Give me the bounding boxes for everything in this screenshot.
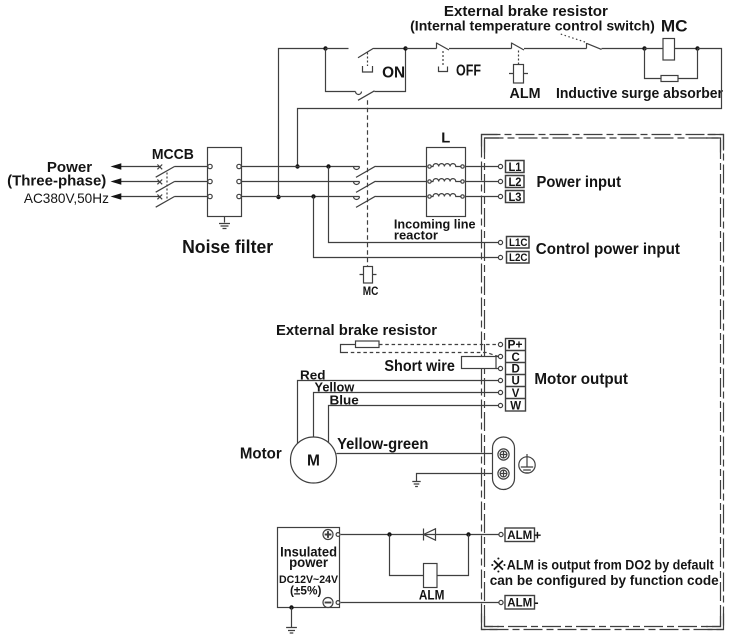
arrow T [111, 193, 122, 199]
svg-text:Short wire: Short wire [384, 358, 455, 375]
node D1a [387, 532, 391, 536]
svg-text:Control power input: Control power input [536, 241, 681, 258]
terminal circle (- out) [336, 601, 340, 605]
terminal box L2 [506, 175, 525, 189]
svg-text:Motor output: Motor output [534, 371, 628, 388]
svg-text:MC: MC [363, 284, 379, 298]
ON pushbutton (normally open) [358, 48, 406, 72]
wire U (Red) [298, 381, 499, 447]
svg-text:Yellow-green: Yellow-green [337, 436, 428, 453]
resistor: inductive surge absorber [661, 76, 678, 82]
node J1 [323, 46, 327, 50]
svg-text:(Internal temperature control: (Internal temperature control switch) [410, 18, 655, 34]
node D1b [466, 532, 470, 536]
inductor L phase 1 [428, 164, 464, 169]
wire: ON parallel branch [326, 49, 406, 92]
svg-text:ALM: ALM [510, 85, 541, 102]
terminal box L1 [506, 160, 525, 174]
phase line R [119, 166, 360, 168]
inverter drive enclosure (dashed double border) [482, 135, 724, 630]
MCCB breaker pole 3 [156, 195, 175, 208]
short wire jumper stubs [496, 357, 499, 369]
svg-text:Inductive surge absorber: Inductive surge absorber [556, 85, 723, 102]
svg-text:-: - [534, 594, 538, 609]
wire: - rail [341, 602, 499, 604]
svg-text:Blue: Blue [330, 392, 359, 407]
OFF pushbutton (normally closed) [437, 43, 512, 72]
terminal box L1C [507, 237, 530, 250]
svg-text:U: U [512, 376, 520, 388]
svg-text:ALM is output from DO2 by defa: ALM is output from DO2 by default [507, 557, 714, 573]
insulated power supply box [278, 528, 340, 608]
terminal strip P+ C D U V W [506, 339, 526, 412]
plus terminal [323, 530, 333, 540]
svg-text:L2C: L2C [509, 252, 528, 264]
MC main contact pole 2 [354, 181, 427, 192]
svg-text:MC: MC [661, 17, 688, 36]
ground (supply) [286, 608, 297, 634]
terminal circle L1 [498, 164, 502, 168]
wire W (Blue) [329, 406, 499, 444]
wire to brake resistor [345, 344, 356, 346]
terminal circle ALM+ [499, 532, 503, 536]
noise filter box [208, 148, 242, 217]
wire: relay branch [390, 535, 469, 576]
wire: yellow-green ground [337, 453, 498, 455]
arrow S [111, 178, 122, 184]
screw terminal 1 [498, 449, 509, 460]
terminal circle L1C [498, 240, 502, 244]
svg-text:Power input: Power input [537, 174, 622, 191]
svg-text:P+: P+ [508, 340, 523, 352]
wire: reactor to L2 terminal [466, 181, 499, 183]
svg-text:ON: ON [382, 64, 405, 81]
resistor: external brake resistor [356, 341, 380, 348]
node J2 [403, 46, 407, 50]
svg-text:ALM: ALM [507, 528, 532, 542]
node J3 [642, 46, 646, 50]
phase line S [119, 181, 360, 183]
MC main contact pole 1 [354, 166, 427, 177]
wire: control tap from L3 phase up to control rail [279, 49, 326, 198]
contactor coil MC [663, 39, 675, 61]
svg-text:ALM: ALM [419, 587, 445, 603]
wire V (Yellow) [314, 393, 499, 438]
svg-text:D: D [512, 364, 520, 376]
svg-text:Noise filter: Noise filter [182, 237, 273, 257]
svg-text:AC380V,50Hz: AC380V,50Hz [24, 190, 109, 206]
wire through MC coil [645, 48, 698, 50]
svg-text:reactor: reactor [394, 227, 438, 242]
wire: control return path [298, 49, 722, 167]
grounding terminal stadium [493, 437, 515, 490]
note reference mark [492, 559, 504, 572]
ALM relay coil (bottom) [424, 564, 438, 588]
terminal circle (+ out) [336, 533, 340, 537]
terminal circle L3 [498, 194, 502, 198]
svg-text:(±5%): (±5%) [290, 583, 321, 597]
MCCB mechanical link [166, 173, 168, 201]
wire: to OFF button [406, 48, 437, 50]
svg-text:can be configured by function: can be configured by function code [490, 572, 719, 588]
dashed wire to C [345, 353, 499, 357]
MC auxiliary contact (latching) [356, 91, 375, 101]
temperature control switch [559, 34, 645, 50]
terminal circle L2 [498, 179, 502, 183]
diode D1 [424, 529, 436, 541]
node: L2C tap [311, 194, 315, 198]
protective earth symbol [519, 454, 535, 473]
node J4 [695, 46, 699, 50]
arrow R [111, 163, 122, 169]
svg-text:L3: L3 [509, 190, 522, 204]
inductor L phase 3 [428, 194, 464, 199]
svg-text:MCCB: MCCB [152, 146, 194, 163]
wire: L1C [329, 167, 499, 243]
svg-text:W: W [510, 400, 521, 412]
svg-text:L: L [441, 129, 450, 146]
node J6 (L3 tap) [276, 195, 280, 199]
mechanical link MC (dashed) [367, 100, 369, 266]
inductor L phase 2 [428, 179, 464, 184]
contactor operating coil MC (bottom) [360, 267, 377, 284]
wire: reactor to L1 terminal [466, 166, 499, 168]
surge absorber branch [645, 49, 698, 79]
svg-text:C: C [512, 352, 520, 364]
svg-text:Motor: Motor [240, 446, 282, 463]
terminal circle L2C [498, 255, 502, 259]
svg-text:ALM: ALM [507, 596, 532, 610]
wire: L2C [314, 197, 499, 258]
terminal box ALM+ [505, 528, 542, 543]
node: supply ground [289, 605, 293, 609]
terminal box L2C [507, 252, 530, 265]
svg-text:M: M [307, 452, 320, 469]
MC main contact pole 3 [354, 196, 427, 207]
MCCB breaker pole 1 [156, 165, 175, 178]
noise filter terminals (left) [208, 164, 212, 198]
wire: + rail [341, 534, 499, 536]
svg-text:power: power [289, 555, 329, 570]
terminal circles P+,C,D,U,V,W [498, 342, 502, 407]
terminal box ALM- [505, 594, 539, 609]
terminal circle ALM- [499, 600, 503, 604]
ALM relay coil symbol (top) [509, 65, 528, 84]
ground (noise filter) [219, 217, 230, 229]
wire: segment to ON button [326, 48, 349, 50]
svg-text:L2: L2 [509, 175, 522, 189]
reactor box L [427, 148, 466, 217]
ALM relay contact (normally closed) [512, 43, 587, 65]
motor M1 [291, 437, 337, 483]
wire: reactor to L3 terminal [466, 196, 499, 198]
MCCB breaker pole 2 [156, 180, 175, 193]
terminal box L3 [506, 190, 525, 204]
ground (motor circuit) [412, 482, 420, 487]
minus terminal [323, 598, 333, 608]
screw terminal 2 [498, 468, 509, 479]
svg-text:L1: L1 [509, 160, 522, 174]
wire: ground stub [417, 474, 498, 482]
svg-text:OFF: OFF [456, 63, 481, 80]
svg-text:V: V [512, 388, 520, 400]
svg-text:(Three-phase): (Three-phase) [7, 172, 106, 189]
phase line T [119, 196, 360, 198]
node J5 [295, 164, 299, 168]
noise filter terminals (right) [237, 164, 241, 198]
svg-text:+: + [534, 528, 542, 543]
svg-text:External brake resistor: External brake resistor [276, 322, 437, 339]
node: L1C tap [326, 164, 330, 168]
short wire jumper [462, 357, 497, 369]
external brake resistor bracket [341, 345, 345, 353]
svg-text:L1C: L1C [509, 237, 528, 249]
dashed wire to P+ [379, 344, 497, 346]
